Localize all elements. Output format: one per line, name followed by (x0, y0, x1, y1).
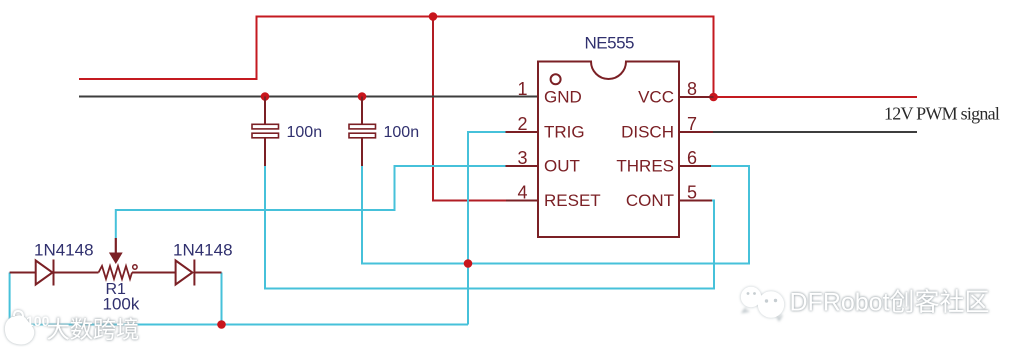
watermark text 大数跨境 (47, 317, 139, 343)
svg-text:1: 1 (517, 79, 527, 99)
svg-text:TRIG: TRIG (544, 123, 585, 142)
watermark text DFRobot创客社区 (790, 289, 990, 317)
svg-text:100k: 100k (103, 295, 140, 314)
svg-text:100n: 100n (384, 124, 420, 141)
svg-text:OUT: OUT (544, 157, 580, 176)
wire maroon stub pin 8 (679, 96, 714, 98)
wire cyan: diode D2 cathode drop to bottom rail (221, 273, 223, 325)
wire maroon stub pin 2 (506, 131, 539, 133)
svg-text:6: 6 (687, 148, 697, 168)
wire maroon stub pin 7 (679, 131, 713, 133)
svg-text:大数跨境: 大数跨境 (47, 317, 139, 343)
wire VCC red: left feed up and across top to pin 8 (79, 17, 917, 98)
svg-text:DISCH: DISCH (621, 123, 674, 142)
diode D1 1N4148 (36, 260, 54, 286)
U1 pin1 indicator circle (551, 74, 561, 84)
svg-text:12V PWM signal: 12V PWM signal (884, 104, 1000, 124)
svg-text:CONT: CONT (626, 191, 674, 210)
R1 wiper arrow (109, 238, 123, 264)
svg-text:1N4148: 1N4148 (34, 241, 94, 260)
wire maroon stub pin 4 (506, 200, 538, 202)
wire cyan: pin 2 TRIG down to junction and bottom rail (468, 132, 506, 325)
node junction dot at pin 8 VCC (709, 93, 718, 102)
svg-text:NE555: NE555 (585, 33, 635, 52)
svg-text:7: 7 (687, 114, 697, 134)
capacitor C1 100n (252, 97, 279, 168)
svg-text:5: 5 (687, 183, 697, 203)
watermark logo right (wechat bubbles) (742, 288, 784, 321)
svg-text:2: 2 (517, 114, 527, 134)
node junction dot TRIG/THRES/C2/bottom net (464, 259, 473, 268)
op-amp U1 NE555 IC body (538, 62, 679, 238)
svg-text:VCC: VCC (638, 88, 674, 107)
svg-text:GND: GND (544, 88, 582, 107)
svg-text:100n: 100n (287, 124, 323, 141)
node junction dot capacitor C2 on GND rail (358, 92, 367, 101)
wire maroon stub pin 5 (679, 200, 712, 202)
svg-text:4: 4 (517, 183, 527, 203)
resistor R1 potentiometer zigzag (99, 266, 133, 279)
wire maroon D2 cathode (194, 272, 221, 274)
R1 terminal circle mark (133, 265, 137, 269)
svg-text:DFRobot创客社区: DFRobot创客社区 (790, 289, 990, 317)
wire GND black: left rail to pin 1 (79, 96, 538, 98)
wire cyan: pin 3 OUT to R1 wiper (116, 166, 506, 239)
wire maroon stub pin 6 (679, 165, 711, 167)
wire black: pin 7 DISCH to right output (712, 131, 917, 133)
node junction dot diode D2 to bottom rail (217, 320, 226, 329)
svg-text:8: 8 (687, 79, 697, 99)
svg-text:3: 3 (517, 148, 527, 168)
svg-text:1N4148: 1N4148 (173, 241, 233, 260)
diode D2 1N4148 (176, 260, 195, 286)
wire maroon stub pin 3 (506, 165, 539, 167)
wire cyan: pin 5 CONT across to capacitor C1 (265, 166, 714, 289)
capacitor C2 100n (349, 97, 376, 168)
wire cyan: pin 6 THRES across to capacitor C2 (362, 166, 749, 264)
node junction dot top rail at x=433 (429, 12, 438, 21)
svg-text:RESET: RESET (544, 191, 601, 210)
wire red branch to RESET pin 4 (433, 17, 506, 201)
svg-text:THRES: THRES (616, 157, 674, 176)
wire maroon diode row left (10, 272, 36, 274)
node junction dot capacitor C1 on GND rail (261, 92, 270, 101)
wire cyan: bottom rail from diode D1 anode (10, 273, 468, 325)
wire maroon D1 to R1 (54, 272, 99, 274)
wire maroon R1 to diode D2 (132, 272, 176, 274)
watermark logo left (6, 311, 50, 344)
